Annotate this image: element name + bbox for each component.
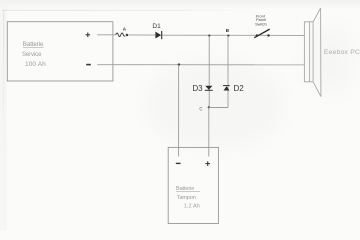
wire: B1 plus to fuse A (97, 34, 116, 36)
svg-text:Batterie: Batterie (176, 186, 194, 192)
wire: C connector horizontal (209, 106, 228, 108)
junction dot on minus rail (178, 63, 180, 65)
wire: D2 branch vertical (227, 36, 229, 108)
wire: C down to B2 plus (208, 107, 210, 156)
node C junction dot (208, 106, 210, 108)
battery B2 box (Batterie Tampon) (168, 147, 218, 223)
switch pole dots (256, 34, 258, 36)
B1 minus terminal (86, 64, 91, 66)
page border left line (2, 10, 5, 160)
junction dot (D3 branch) (208, 35, 210, 37)
Eeebox PC bottom edge segment (310, 81, 313, 83)
Eeebox PC top edge segment (310, 21, 314, 23)
B2 plus terminal (205, 161, 210, 166)
svg-text:1,2 Ah: 1,2 Ah (184, 204, 200, 210)
battery B1 box (Batterie Service) (7, 22, 113, 81)
wire: D1 to PC (top rail) (162, 34, 304, 36)
junction dot after fuse (126, 34, 128, 36)
Eeebox PC side panel (313, 8, 321, 97)
svg-text:D3: D3 (192, 84, 203, 93)
wire: A to D1 (128, 34, 155, 36)
wire: D3 branch vertical (208, 36, 210, 108)
svg-text:D1: D1 (152, 23, 161, 30)
front panel switch text (255, 13, 267, 26)
page border top line (2, 9, 255, 12)
diode D3 (pointing down) (205, 86, 213, 91)
svg-text:D2: D2 (234, 84, 245, 93)
Eeebox PC front face (304, 22, 309, 82)
svg-text:Eeebox PC: Eeebox PC (324, 49, 360, 56)
svg-text:Service: Service (22, 52, 42, 58)
B1 plus terminal (86, 33, 91, 38)
wire: minus rail B1 to PC (97, 64, 304, 66)
switch lever (254, 29, 269, 38)
B2 minus terminal (176, 162, 181, 164)
svg-text:100 Ah: 100 Ah (25, 61, 46, 68)
node B junction dot (227, 35, 229, 37)
diode D1 (155, 31, 161, 39)
svg-text:Switch: Switch (255, 22, 267, 27)
svg-text:Tampon: Tampon (177, 195, 196, 201)
wire: minus rail down to B2 minus (178, 65, 180, 157)
svg-text:Batterie: Batterie (23, 41, 44, 48)
diode D2 (pointing up) (223, 86, 230, 91)
fuse squiggle A (116, 33, 125, 37)
